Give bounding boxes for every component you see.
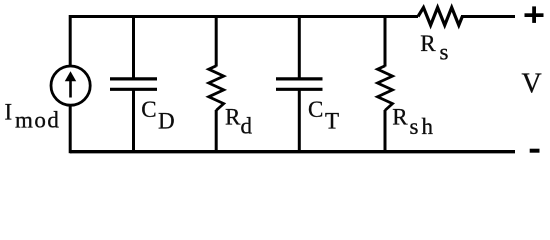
wire R_sh top lead [384,17,387,67]
svg-text:T: T [325,109,339,134]
svg-text:R: R [420,31,436,56]
terminal plus [525,6,544,23]
svg-text:C: C [141,97,156,122]
wire C_T top lead [298,17,301,80]
label R_s [420,31,448,64]
resistor R_d [209,66,224,111]
svg-text:mod: mod [15,108,60,133]
label R_sh [392,104,436,139]
wire left vertical upper [69,15,72,67]
resistor R_sh [378,66,393,111]
terminal minus [530,149,540,153]
svg-text:s: s [440,39,449,64]
svg-text:d: d [241,114,253,139]
label R_d [225,104,253,138]
wire top right segment [461,15,515,18]
svg-text:sh: sh [410,114,436,139]
wire R_sh bottom lead [384,110,387,152]
label I_mod [5,99,61,132]
wire R_d top lead [215,17,218,67]
svg-text:I: I [5,99,13,124]
wire R_d bottom lead [215,110,218,152]
wire left vertical lower [69,105,72,153]
svg-text:C: C [308,97,323,122]
capacitor C_T [276,79,323,89]
svg-text:V: V [522,68,542,99]
wire bottom rail [70,150,515,153]
svg-text:R: R [392,104,408,129]
svg-text:D: D [158,109,175,134]
wire top rail [70,15,418,18]
current source I_mod [51,66,90,105]
label C_D [141,97,174,134]
wire C_D bottom lead [132,89,135,152]
wire C_T bottom lead [298,89,301,152]
resistor R_s [418,8,462,26]
capacitor C_D [110,79,157,89]
svg-text:R: R [225,104,241,129]
label C_T [308,97,339,134]
wire C_D top lead [132,17,135,80]
